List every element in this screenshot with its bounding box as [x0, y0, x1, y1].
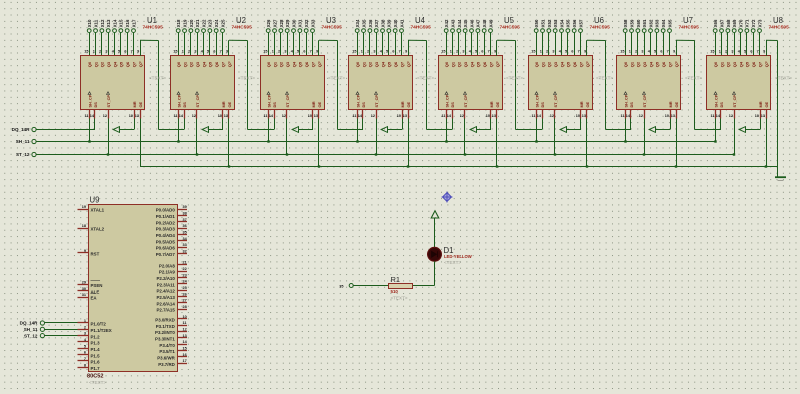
svg-text:P2.7/A15: P2.7/A15 [156, 308, 175, 313]
svg-text:X52: X52 [547, 19, 552, 27]
svg-text:P0.0/AD0: P0.0/AD0 [156, 208, 176, 213]
svg-text:X62: X62 [648, 19, 653, 27]
svg-text:OE: OE [138, 101, 143, 107]
svg-text:Q5: Q5 [387, 61, 392, 67]
svg-text:Q6: Q6 [214, 61, 219, 67]
svg-text:P1.3: P1.3 [91, 341, 101, 346]
svg-text:X35: X35 [361, 19, 366, 27]
svg-text:12: 12 [192, 114, 196, 118]
svg-text:11: 11 [441, 114, 445, 118]
svg-text:12: 12 [103, 114, 107, 118]
svg-text:<TEXT>: <TEXT> [391, 296, 408, 301]
svg-text:Q1: Q1 [540, 61, 545, 67]
svg-text:Q0: Q0 [444, 61, 449, 67]
svg-text:10: 10 [183, 315, 187, 319]
svg-text:ST_CP: ST_CP [463, 95, 468, 108]
svg-text:1: 1 [272, 50, 274, 54]
svg-text:12: 12 [282, 114, 286, 118]
svg-text:<TEXT>: <TEXT> [328, 75, 345, 80]
svg-text:X32: X32 [304, 19, 309, 27]
svg-text:15: 15 [84, 50, 88, 54]
svg-text:Q7: Q7 [488, 61, 493, 67]
svg-text:13: 13 [582, 114, 586, 118]
svg-text:80C52: 80C52 [87, 373, 103, 379]
svg-text:15: 15 [352, 50, 356, 54]
svg-text:26: 26 [183, 292, 187, 296]
svg-text:1: 1 [629, 50, 631, 54]
svg-text:Q5: Q5 [566, 61, 571, 67]
svg-text:ST_CP: ST_CP [732, 95, 737, 108]
svg-text:P3.4/T0: P3.4/T0 [159, 343, 175, 348]
svg-text:Q6: Q6 [393, 61, 398, 67]
svg-text:1: 1 [84, 319, 86, 323]
svg-text:X30: X30 [291, 19, 296, 27]
svg-text:PSEN: PSEN [91, 283, 103, 288]
svg-text:5: 5 [118, 50, 120, 54]
svg-text:Q2: Q2 [547, 61, 552, 67]
svg-text:X51: X51 [540, 19, 545, 27]
svg-text:Q7': Q7' [406, 61, 411, 67]
svg-text:9: 9 [84, 249, 86, 253]
svg-text:Q7': Q7' [585, 61, 590, 67]
svg-text:<TEXT>: <TEXT> [417, 75, 434, 80]
svg-text:Q1: Q1 [361, 61, 366, 67]
svg-text:U9: U9 [90, 195, 100, 204]
svg-text:X41: X41 [399, 19, 404, 27]
svg-text:3: 3 [373, 50, 375, 54]
svg-text:EA: EA [91, 296, 98, 301]
svg-text:X24: X24 [214, 19, 219, 27]
svg-text:28: 28 [183, 305, 187, 309]
svg-text:X47: X47 [476, 19, 481, 27]
svg-text:15: 15 [620, 50, 624, 54]
svg-text:X27: X27 [272, 19, 277, 27]
svg-text:13: 13 [403, 114, 407, 118]
svg-text:Q4: Q4 [112, 61, 117, 67]
svg-text:15: 15 [263, 50, 267, 54]
svg-text:2: 2 [278, 50, 280, 54]
svg-text:X69: X69 [732, 19, 737, 27]
svg-text:X46: X46 [469, 19, 474, 27]
svg-text:36: 36 [183, 224, 187, 228]
svg-text:X23: X23 [208, 19, 213, 27]
svg-text:X67: X67 [719, 19, 724, 27]
svg-text:X26: X26 [266, 19, 271, 27]
svg-text:11: 11 [84, 114, 88, 118]
svg-text:OE: OE [585, 101, 590, 107]
svg-text:Q4: Q4 [648, 61, 653, 67]
svg-text:X37: X37 [374, 19, 379, 27]
svg-text:74HC595: 74HC595 [679, 25, 700, 31]
svg-text:15: 15 [441, 50, 445, 54]
svg-text:9: 9 [584, 50, 586, 54]
svg-text:22: 22 [183, 267, 187, 271]
svg-text:7: 7 [84, 357, 86, 361]
svg-text:X63: X63 [655, 19, 660, 27]
svg-text:35: 35 [183, 230, 187, 234]
svg-text:Q0: Q0 [623, 61, 628, 67]
svg-text:P0.7/AD7: P0.7/AD7 [156, 252, 176, 257]
svg-text:LED-YELLOW: LED-YELLOW [444, 254, 472, 259]
svg-text:ST_CP: ST_CP [285, 95, 290, 108]
svg-text:Q2: Q2 [189, 61, 194, 67]
svg-text:3: 3 [194, 50, 196, 54]
svg-text:Q1: Q1 [629, 61, 634, 67]
svg-text:X66: X66 [713, 19, 718, 27]
svg-text:9: 9 [137, 50, 139, 54]
svg-text:Q5: Q5 [208, 61, 213, 67]
svg-text:Q1: Q1 [272, 61, 277, 67]
svg-text:Q3: Q3 [642, 61, 647, 67]
svg-text:6: 6 [392, 50, 394, 54]
svg-text:7: 7 [131, 50, 133, 54]
svg-text:ST_CP: ST_CP [642, 95, 647, 108]
svg-text:10: 10 [486, 114, 490, 118]
svg-text:15: 15 [710, 50, 714, 54]
svg-text:X48: X48 [482, 19, 487, 27]
svg-text:Q6: Q6 [304, 61, 309, 67]
svg-text:X13: X13 [106, 19, 111, 27]
svg-text:74HC595: 74HC595 [232, 25, 253, 31]
svg-text:35: 35 [339, 284, 343, 288]
svg-text:Q7: Q7 [220, 61, 225, 67]
svg-text:P1.5: P1.5 [91, 353, 101, 358]
svg-text:P2.3/A11: P2.3/A11 [157, 282, 176, 287]
svg-text:Q3: Q3 [285, 61, 290, 67]
svg-text:Q0: Q0 [713, 61, 718, 67]
svg-text:P0.2/AD2: P0.2/AD2 [156, 220, 176, 225]
svg-text:Q3: Q3 [732, 61, 737, 67]
svg-text:Q6: Q6 [125, 61, 130, 67]
svg-text:DS: DS [182, 102, 187, 108]
svg-text:9: 9 [673, 50, 675, 54]
svg-text:3: 3 [105, 50, 107, 54]
svg-text:6: 6 [750, 50, 752, 54]
svg-text:25: 25 [183, 286, 187, 290]
svg-text:11: 11 [263, 114, 267, 118]
svg-text:DS: DS [450, 102, 455, 108]
svg-text:Q7': Q7' [674, 61, 679, 67]
svg-text:1: 1 [450, 50, 452, 54]
svg-text:X16: X16 [125, 19, 130, 27]
svg-text:OE: OE [674, 101, 679, 107]
svg-text:Q7: Q7 [399, 61, 404, 67]
svg-text:Q3: Q3 [553, 61, 558, 67]
svg-text:1: 1 [361, 50, 363, 54]
svg-text:9: 9 [494, 50, 496, 54]
svg-text:6: 6 [660, 50, 662, 54]
svg-text:ST_12: ST_12 [24, 333, 38, 338]
svg-text:<TEXT>: <TEXT> [238, 75, 255, 80]
svg-text:2: 2 [456, 50, 458, 54]
svg-text:X73: X73 [757, 19, 762, 27]
svg-text:X72: X72 [751, 19, 756, 27]
svg-text:2: 2 [635, 50, 637, 54]
svg-text:10: 10 [129, 114, 133, 118]
svg-text:OE: OE [764, 101, 769, 107]
svg-text:Q2: Q2 [457, 61, 462, 67]
svg-text:74HC595: 74HC595 [769, 25, 790, 31]
svg-text:X17: X17 [131, 19, 136, 27]
svg-text:6: 6 [571, 50, 573, 54]
svg-text:17: 17 [183, 359, 187, 363]
svg-text:Q3: Q3 [106, 61, 111, 67]
svg-text:X40: X40 [393, 19, 398, 27]
svg-text:2: 2 [99, 50, 101, 54]
svg-text:5: 5 [84, 344, 86, 348]
svg-text:12: 12 [460, 114, 464, 118]
svg-text:P2.4/A12: P2.4/A12 [156, 289, 175, 294]
svg-text:X50: X50 [534, 19, 539, 27]
svg-text:12: 12 [729, 114, 733, 118]
svg-text:29: 29 [82, 281, 86, 285]
svg-text:X12: X12 [100, 19, 105, 27]
svg-text:P1.4: P1.4 [91, 347, 101, 352]
svg-text:X54: X54 [559, 19, 564, 27]
svg-text:P2.1/A9: P2.1/A9 [159, 270, 175, 275]
svg-text:39: 39 [183, 205, 187, 209]
svg-text:5: 5 [744, 50, 746, 54]
svg-text:Q5: Q5 [119, 61, 124, 67]
svg-text:P3.7/RD: P3.7/RD [158, 362, 175, 367]
svg-text:X38: X38 [380, 19, 385, 27]
svg-text:X36: X36 [368, 19, 373, 27]
svg-text:X19: X19 [182, 19, 187, 27]
svg-text:X58: X58 [623, 19, 628, 27]
svg-text:1: 1 [182, 50, 184, 54]
svg-text:9: 9 [226, 50, 228, 54]
svg-text:P3.2/INT0: P3.2/INT0 [155, 330, 175, 335]
svg-text:10: 10 [308, 114, 312, 118]
svg-text:P3.1/TXD: P3.1/TXD [156, 324, 175, 329]
svg-text:DS: DS [361, 102, 366, 108]
svg-text:U3: U3 [326, 16, 336, 25]
svg-text:Q4: Q4 [201, 61, 206, 67]
svg-text:Q4: Q4 [738, 61, 743, 67]
svg-text:DS: DS [629, 102, 634, 108]
svg-text:8: 8 [84, 363, 86, 367]
svg-text:13: 13 [671, 114, 675, 118]
svg-text:15: 15 [531, 50, 535, 54]
svg-text:Q0: Q0 [266, 61, 271, 67]
svg-text:U8: U8 [773, 16, 783, 25]
svg-text:DQ_14R: DQ_14R [20, 321, 39, 326]
svg-text:ST_CP: ST_CP [553, 95, 558, 108]
svg-text:Q7': Q7' [138, 61, 143, 67]
svg-text:6: 6 [213, 50, 215, 54]
svg-text:DS: DS [272, 102, 277, 108]
svg-text:37: 37 [183, 218, 187, 222]
svg-text:30: 30 [82, 287, 86, 291]
svg-text:SH_11: SH_11 [24, 327, 38, 332]
svg-text:P2.6/A14: P2.6/A14 [156, 301, 175, 306]
svg-text:U4: U4 [415, 16, 426, 25]
svg-text:X29: X29 [285, 19, 290, 27]
svg-text:P0.5/AD5: P0.5/AD5 [156, 239, 176, 244]
svg-text:<TEXT>: <TEXT> [149, 75, 166, 80]
svg-text:X42: X42 [444, 19, 449, 27]
svg-text:74HC595: 74HC595 [322, 25, 343, 31]
svg-text:Q1: Q1 [93, 61, 98, 67]
svg-text:33: 33 [183, 243, 187, 247]
svg-text:X28: X28 [279, 19, 284, 27]
svg-text:OE: OE [406, 101, 411, 107]
svg-text:10: 10 [397, 114, 401, 118]
svg-text:MR: MR [400, 101, 405, 107]
svg-text:11: 11 [352, 114, 356, 118]
svg-text:13: 13 [761, 114, 765, 118]
svg-text:MR: MR [489, 101, 494, 107]
svg-text:SH_11: SH_11 [16, 139, 30, 144]
svg-text:Q2: Q2 [368, 61, 373, 67]
svg-text:ST_CP: ST_CP [195, 95, 200, 108]
svg-text:Q0: Q0 [176, 61, 181, 67]
svg-text:11: 11 [620, 114, 624, 118]
svg-text:10: 10 [755, 114, 759, 118]
svg-text:38: 38 [183, 211, 187, 215]
svg-text:Q6: Q6 [572, 61, 577, 67]
svg-text:12: 12 [639, 114, 643, 118]
svg-text:12: 12 [371, 114, 375, 118]
svg-text:7: 7 [757, 50, 759, 54]
svg-text:SH_CP: SH_CP [176, 94, 181, 107]
svg-text:2: 2 [367, 50, 369, 54]
svg-text:OE: OE [227, 101, 232, 107]
svg-text:10: 10 [218, 114, 222, 118]
svg-text:Q7': Q7' [227, 61, 232, 67]
svg-text:XTAL1: XTAL1 [91, 208, 105, 213]
svg-text:Q3: Q3 [463, 61, 468, 67]
svg-text:P0.3/AD3: P0.3/AD3 [156, 227, 176, 232]
svg-text:Q7: Q7 [131, 61, 136, 67]
svg-text:6: 6 [481, 50, 483, 54]
svg-text:X31: X31 [298, 19, 303, 27]
svg-text:74HC595: 74HC595 [500, 25, 521, 31]
svg-text:7: 7 [488, 50, 490, 54]
svg-text:21: 21 [183, 261, 187, 265]
svg-text:<TEXT>: <TEXT> [596, 75, 613, 80]
svg-text:13: 13 [224, 114, 228, 118]
svg-text:9: 9 [405, 50, 407, 54]
svg-text:15: 15 [183, 347, 187, 351]
svg-text:X34: X34 [355, 19, 360, 27]
svg-text:12: 12 [183, 328, 187, 332]
svg-text:1: 1 [540, 50, 542, 54]
svg-text:MR: MR [579, 101, 584, 107]
svg-text:Q0: Q0 [87, 61, 92, 67]
svg-text:<TEXT>: <TEXT> [775, 75, 792, 80]
svg-text:6: 6 [84, 351, 86, 355]
svg-text:X65: X65 [667, 19, 672, 27]
svg-text:X60: X60 [636, 19, 641, 27]
svg-text:P0.4/AD4: P0.4/AD4 [156, 233, 176, 238]
svg-text:X61: X61 [642, 19, 647, 27]
svg-text:Q3: Q3 [374, 61, 379, 67]
svg-text:5: 5 [207, 50, 209, 54]
svg-text:Q7: Q7 [667, 61, 672, 67]
svg-text:Q7: Q7 [757, 61, 762, 67]
svg-text:X14: X14 [112, 19, 117, 27]
svg-text:15: 15 [173, 50, 177, 54]
svg-text:9: 9 [763, 50, 765, 54]
svg-text:2: 2 [188, 50, 190, 54]
svg-text:DS: DS [93, 102, 98, 108]
svg-text:74HC595: 74HC595 [411, 25, 432, 31]
svg-text:MR: MR [311, 101, 316, 107]
svg-text:RST: RST [91, 252, 100, 257]
svg-text:Q6: Q6 [661, 61, 666, 67]
svg-text:X21: X21 [195, 19, 200, 27]
svg-text:7: 7 [667, 50, 669, 54]
svg-text:Q5: Q5 [476, 61, 481, 67]
svg-text:<TEXT>: <TEXT> [89, 380, 106, 385]
svg-text:U6: U6 [594, 16, 604, 25]
svg-text:11: 11 [173, 114, 177, 118]
svg-text:12: 12 [550, 114, 554, 118]
svg-text:11: 11 [183, 321, 187, 325]
svg-text:74HC595: 74HC595 [590, 25, 611, 31]
svg-text:10: 10 [576, 114, 580, 118]
svg-text:18: 18 [82, 224, 86, 228]
svg-text:X55: X55 [566, 19, 571, 27]
svg-text:3: 3 [84, 332, 86, 336]
svg-text:3: 3 [731, 50, 733, 54]
svg-text:P2.0/A8: P2.0/A8 [159, 263, 175, 268]
svg-text:X70: X70 [738, 19, 743, 27]
svg-text:2: 2 [725, 50, 727, 54]
svg-text:5: 5 [565, 50, 567, 54]
svg-text:OE: OE [495, 101, 500, 107]
svg-text:P1.2: P1.2 [91, 334, 101, 339]
svg-text:Q2: Q2 [100, 61, 105, 67]
svg-text:P3.5/T1: P3.5/T1 [159, 349, 175, 354]
svg-text:2: 2 [546, 50, 548, 54]
svg-text:Q7: Q7 [310, 61, 315, 67]
svg-text:1: 1 [719, 50, 721, 54]
svg-text:Q7': Q7' [317, 61, 322, 67]
svg-text:27: 27 [183, 299, 187, 303]
svg-text:Q2: Q2 [636, 61, 641, 67]
svg-text:U1: U1 [147, 16, 157, 25]
svg-text:74HC595: 74HC595 [143, 25, 164, 31]
svg-text:ST_CP: ST_CP [374, 95, 379, 108]
svg-text:Q4: Q4 [380, 61, 385, 67]
svg-text:Q0: Q0 [534, 61, 539, 67]
svg-text:5: 5 [297, 50, 299, 54]
svg-text:X25: X25 [220, 19, 225, 27]
svg-text:SH_CP: SH_CP [87, 94, 92, 107]
svg-text:P1.6: P1.6 [91, 360, 101, 365]
svg-text:Q7': Q7' [764, 61, 769, 67]
svg-text:X68: X68 [726, 19, 731, 27]
svg-text:P3.6/WR: P3.6/WR [157, 355, 175, 360]
svg-text:<TEXT>: <TEXT> [685, 75, 702, 80]
svg-text:Q7: Q7 [578, 61, 583, 67]
svg-text:X43: X43 [450, 19, 455, 27]
svg-text:P3.3/INT1: P3.3/INT1 [155, 336, 175, 341]
svg-text:X18: X18 [176, 19, 181, 27]
svg-text:Q1: Q1 [182, 61, 187, 67]
svg-text:P1.7: P1.7 [91, 366, 101, 371]
svg-text:X64: X64 [661, 19, 666, 27]
svg-text:16: 16 [183, 353, 187, 357]
svg-text:X20: X20 [189, 19, 194, 27]
svg-text:OE: OE [317, 101, 322, 107]
svg-text:X39: X39 [387, 19, 392, 27]
svg-text:X10: X10 [87, 19, 92, 27]
svg-text:3: 3 [284, 50, 286, 54]
svg-text:Q7': Q7' [495, 61, 500, 67]
